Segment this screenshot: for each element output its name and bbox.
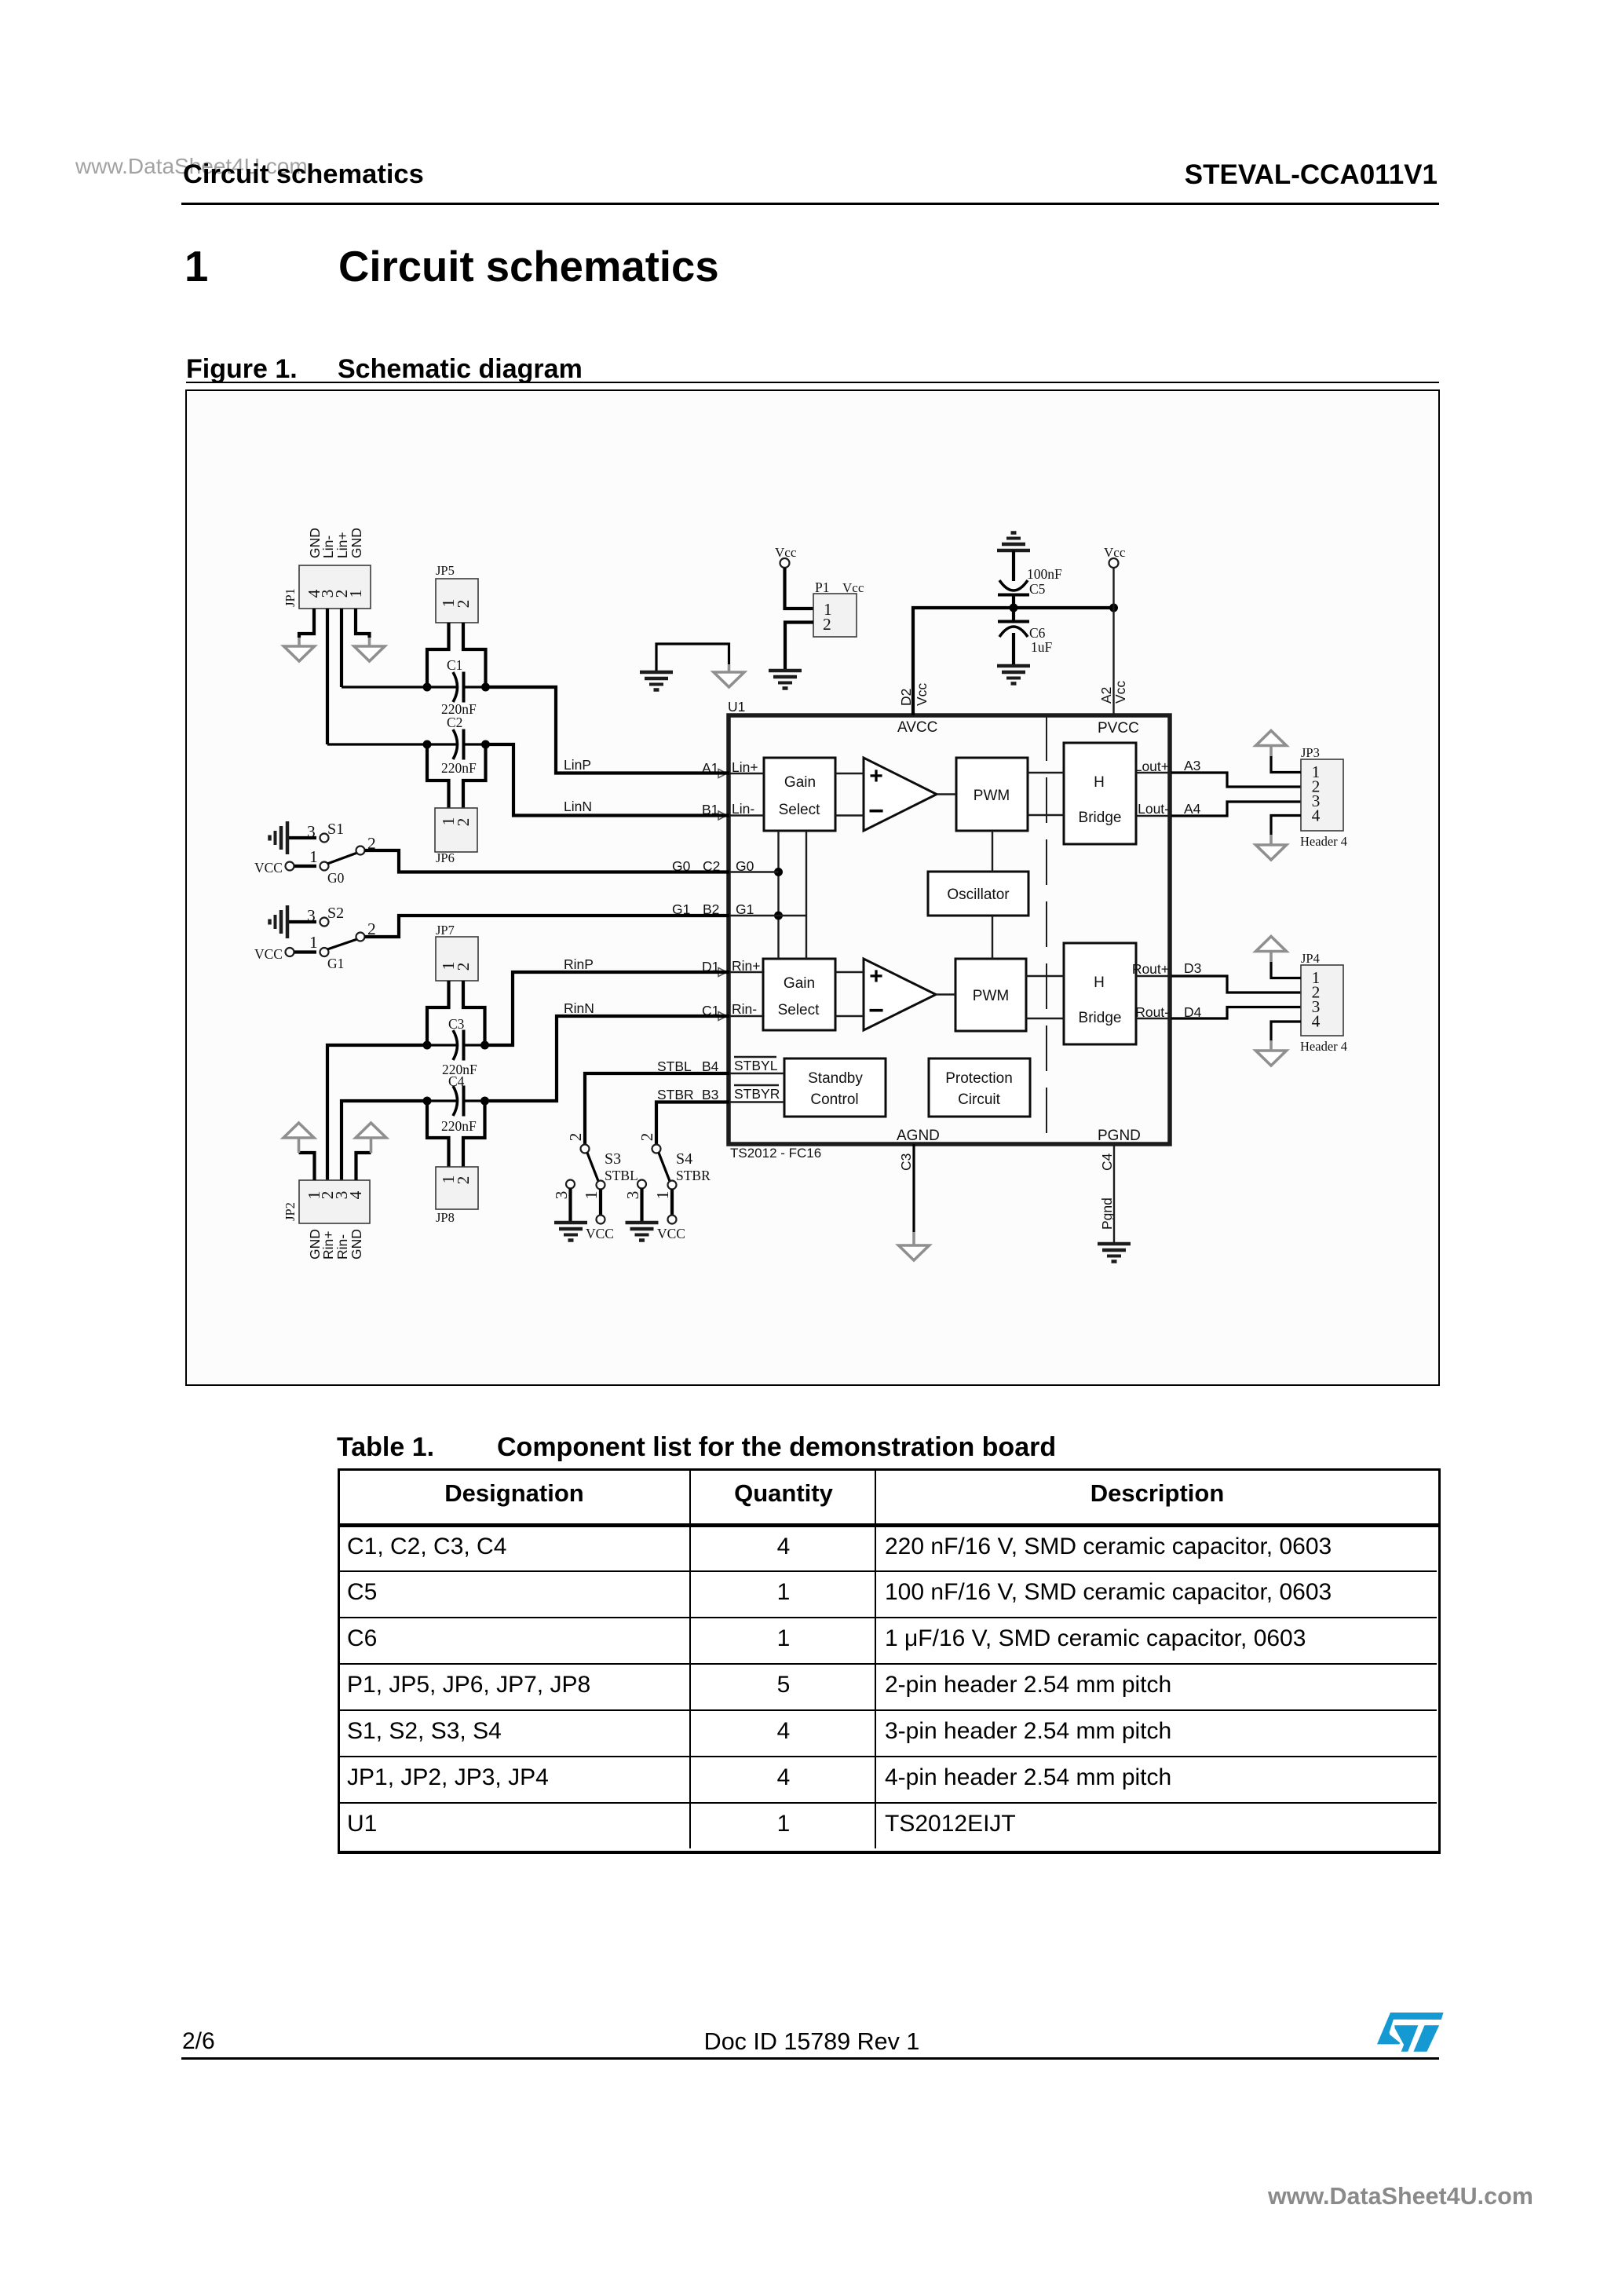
wire op-amp out to PWM (right) xyxy=(936,993,955,995)
svg-text:1uF: 1uF xyxy=(1031,639,1053,655)
wire H bridge to Lout- pin xyxy=(1136,815,1171,817)
gain select block (right channel) xyxy=(763,959,835,1030)
svg-text:Pgnd: Pgnd xyxy=(1099,1197,1115,1230)
ground above C5 (inverted earth) xyxy=(997,533,1030,551)
footer doc id xyxy=(704,2028,920,2056)
ground JP1 pin4 (gray stem) xyxy=(298,638,301,646)
S4 pin1 pad xyxy=(668,1181,677,1190)
ground tie (triangle) xyxy=(714,672,744,687)
svg-text:STBL: STBL xyxy=(605,1168,638,1183)
svg-text:Gain: Gain xyxy=(784,975,815,992)
svg-text:1: 1 xyxy=(346,590,365,598)
svg-text:Lin+: Lin+ xyxy=(732,759,758,775)
S2 blade xyxy=(327,939,357,949)
svg-text:Rin-: Rin- xyxy=(334,1234,350,1260)
wire H bridge to Lout+ pin xyxy=(1136,772,1171,773)
svg-text:C2: C2 xyxy=(447,715,462,730)
svg-text:AVCC: AVCC xyxy=(897,719,937,736)
svg-text:JP6: JP6 xyxy=(436,850,455,865)
S1 blade xyxy=(327,853,357,864)
svg-text:Rin+: Rin+ xyxy=(320,1231,336,1260)
svg-text:1: 1 xyxy=(582,1191,601,1200)
svg-text:100nF: 100nF xyxy=(1027,566,1062,582)
wire D1 pin to gain select xyxy=(729,971,763,973)
header JP6 xyxy=(435,808,477,852)
ST logo xyxy=(1377,2013,1444,2056)
wire JP1 pin3 Lin- vertical xyxy=(326,609,329,744)
connector JP4 xyxy=(1301,965,1343,1036)
svg-text:1: 1 xyxy=(309,847,318,866)
node VCC at S2 xyxy=(286,948,294,956)
wire JP3 pin1 to arrow xyxy=(1271,756,1301,773)
ground JP1 pin1 (triangle) xyxy=(354,646,385,661)
oscillator block xyxy=(928,872,1028,916)
svg-text:JP8: JP8 xyxy=(436,1210,455,1225)
op-amp (left channel) xyxy=(864,758,937,831)
header P1 xyxy=(813,594,857,637)
arrow JP2 pin1 (gray stem) xyxy=(298,1139,301,1153)
svg-text:3: 3 xyxy=(307,906,316,925)
svg-text:Oscillator: Oscillator xyxy=(947,887,1010,903)
svg-text:C1: C1 xyxy=(447,657,462,673)
svg-text:Lout-: Lout- xyxy=(1138,801,1169,817)
arrow JP4 pin1 (triangle up) xyxy=(1256,937,1287,952)
svg-text:PWM: PWM xyxy=(974,788,1010,804)
ground at P1 (earth) xyxy=(769,671,802,689)
svg-text:TS2012 - FC16: TS2012 - FC16 xyxy=(730,1146,821,1161)
svg-text:S3: S3 xyxy=(605,1150,621,1168)
wire oscillator to PWM (right) xyxy=(992,916,993,959)
arrow JP4 pin1 (gray stem) xyxy=(1269,952,1273,962)
S2 pin2 pad xyxy=(356,933,365,941)
wire AGND pin xyxy=(912,1144,915,1232)
wire STBYR pin to standby control xyxy=(729,1101,784,1102)
switch S2 ground (rotated earth) xyxy=(270,905,288,938)
wire RinN xyxy=(485,1016,730,1101)
S3 blade xyxy=(587,1153,598,1181)
ground AGND (gray stem) xyxy=(912,1232,915,1245)
arrow JP2 pin1 (triangle up) xyxy=(283,1123,314,1138)
junction C4 left xyxy=(423,1097,432,1106)
svg-text:H: H xyxy=(1094,974,1105,991)
header rule xyxy=(181,203,1439,205)
svg-text:LinP: LinP xyxy=(564,757,591,773)
standby control block xyxy=(784,1058,886,1117)
PWM block (left channel) xyxy=(956,758,1028,831)
svg-text:PVCC: PVCC xyxy=(1098,720,1139,737)
S2 pin1 pad xyxy=(320,948,329,956)
ground AGND (triangle) xyxy=(899,1245,930,1260)
gain select block (left channel) xyxy=(764,758,835,831)
junction C2 left xyxy=(423,740,432,749)
wire STBR net xyxy=(656,1102,729,1145)
figure frame xyxy=(185,389,1440,1386)
svg-text:JP5: JP5 xyxy=(436,563,455,578)
svg-text:−: − xyxy=(868,996,884,1026)
running header left xyxy=(183,159,424,190)
bottom watermark xyxy=(1268,2183,1533,2210)
arrow JP4 pin4 (gray stem) xyxy=(1269,1040,1273,1051)
svg-text:2: 2 xyxy=(823,615,831,634)
svg-text:A4: A4 xyxy=(1184,801,1201,817)
capacitor C5 xyxy=(999,580,1028,590)
input arrow B1 xyxy=(718,811,727,820)
svg-text:S2: S2 xyxy=(327,905,344,922)
svg-text:Standby: Standby xyxy=(808,1070,863,1087)
svg-text:2: 2 xyxy=(454,600,473,609)
svg-text:RinN: RinN xyxy=(564,1000,594,1016)
wire G1 vertical between gain selects xyxy=(806,831,807,959)
table xyxy=(338,1468,1441,1854)
wire Lout+ / A3 xyxy=(1171,773,1301,787)
header JP7 xyxy=(436,937,478,981)
svg-text:Rin+: Rin+ xyxy=(732,958,760,974)
svg-text:2: 2 xyxy=(454,818,473,827)
wire gain select to op-amp + (left) xyxy=(835,773,864,774)
wire C2 bus left xyxy=(327,743,458,745)
svg-text:G0: G0 xyxy=(327,870,345,886)
svg-text:RinP: RinP xyxy=(564,956,594,972)
wire LinP xyxy=(486,687,730,773)
svg-text:G1: G1 xyxy=(736,901,754,917)
wire G0 net to U1 xyxy=(365,850,730,872)
wire G1 net to U1 xyxy=(365,916,730,937)
wire STBYL pin to standby control xyxy=(729,1073,784,1074)
wire C4 bus left + Rin- vertical to JP2 xyxy=(342,1101,427,1180)
svg-text:P1: P1 xyxy=(815,579,829,595)
wire G0 vertical to both gain selects xyxy=(777,831,779,959)
wire Vcc to A2 pin xyxy=(1112,568,1114,715)
svg-text:Vcc: Vcc xyxy=(914,683,930,706)
junction C4 right xyxy=(480,1097,489,1106)
arrow JP3 pin1 (triangle up) xyxy=(1256,731,1287,746)
svg-text:A3: A3 xyxy=(1184,758,1200,773)
wire C2 to JP6 pin2 xyxy=(463,744,486,808)
svg-text:S4: S4 xyxy=(676,1150,692,1168)
input arrow D1 xyxy=(718,968,727,977)
wire Vcc to P1 pin1 xyxy=(785,568,814,609)
arrow JP3 pin4 (gray stem) xyxy=(1269,835,1273,845)
svg-text:B3: B3 xyxy=(702,1087,718,1102)
svg-text:Lin-: Lin- xyxy=(732,801,754,817)
svg-text:1: 1 xyxy=(309,933,318,952)
wire JP7 pin1 bypass loop xyxy=(427,981,449,1042)
wire Rout+ / D3 xyxy=(1171,976,1301,993)
wire JP4 pin1 to arrow xyxy=(1271,962,1301,978)
caption underline xyxy=(186,382,1439,383)
svg-text:Vcc: Vcc xyxy=(1112,681,1128,704)
svg-text:2: 2 xyxy=(454,963,473,971)
svg-text:D4: D4 xyxy=(1184,1004,1202,1020)
switch S1 ground (rotated earth) xyxy=(270,821,288,854)
junction C3 right xyxy=(480,1041,489,1050)
wire S3 pin1 to VCC xyxy=(599,1190,602,1216)
svg-text:STBYR: STBYR xyxy=(734,1086,780,1102)
svg-text:Lin+: Lin+ xyxy=(334,532,350,558)
wire JP2 pin4 to arrow xyxy=(356,1153,371,1180)
svg-text:G0: G0 xyxy=(736,858,754,874)
header JP8 xyxy=(436,1167,478,1209)
junction G1 xyxy=(774,912,783,920)
svg-text:C5: C5 xyxy=(1029,581,1046,597)
svg-text:PGND: PGND xyxy=(1098,1128,1141,1144)
capacitor C1 xyxy=(453,672,464,703)
wire S2 pin3 stem xyxy=(289,920,316,923)
svg-text:Gain: Gain xyxy=(784,774,816,791)
S4 pin3 pad xyxy=(637,1180,646,1189)
wire P1 pin2 to ground xyxy=(785,623,813,670)
wire S4 pin1 to VCC xyxy=(670,1190,674,1216)
svg-text:4: 4 xyxy=(346,1190,365,1199)
dashed domain divider xyxy=(1046,715,1047,1144)
svg-text:Bridge: Bridge xyxy=(1079,810,1122,826)
svg-text:3: 3 xyxy=(307,822,316,841)
ground below C6 (earth) xyxy=(997,666,1030,684)
svg-text:+: + xyxy=(869,963,883,989)
svg-text:Vcc: Vcc xyxy=(842,580,864,595)
wire STBL net xyxy=(585,1073,729,1145)
wire C4 to JP8 pin2 xyxy=(463,1101,485,1167)
wire Rout- / D4 xyxy=(1171,1007,1301,1019)
wire JP1 pin4 to ground xyxy=(299,609,314,638)
svg-text:220nF: 220nF xyxy=(441,760,477,776)
S3 pin3 pad xyxy=(566,1180,575,1189)
svg-text:S1: S1 xyxy=(327,821,344,838)
wire gain select to op-amp + (right) xyxy=(835,971,864,973)
svg-text:2: 2 xyxy=(566,1133,585,1142)
wire JP7 pin2 bypass loop xyxy=(463,981,485,1042)
svg-text:Circuit: Circuit xyxy=(958,1091,1001,1108)
schematic figure xyxy=(185,389,1439,1385)
wire S1 pin3 stem xyxy=(289,836,316,839)
svg-text:Bridge: Bridge xyxy=(1079,1010,1122,1026)
svg-text:Lin-: Lin- xyxy=(320,536,336,558)
arrow JP3 pin4 (triangle down) xyxy=(1256,845,1287,860)
S1 pin1 pad xyxy=(320,862,329,871)
wire JP1 pin2 Lin+ vertical xyxy=(340,609,343,687)
svg-text:C4: C4 xyxy=(448,1073,465,1089)
svg-text:−: − xyxy=(868,796,884,826)
wire JP1 pin1 to ground xyxy=(356,609,370,638)
svg-text:Lout+: Lout+ xyxy=(1134,759,1169,774)
svg-text:H: H xyxy=(1094,774,1105,791)
svg-text:STBR: STBR xyxy=(676,1168,711,1183)
section number xyxy=(184,242,208,291)
arrow JP2 pin4 (gray stem) xyxy=(370,1139,373,1153)
svg-text:JP7: JP7 xyxy=(436,923,455,938)
svg-text:AGND: AGND xyxy=(897,1128,940,1144)
header JP5 xyxy=(436,579,478,623)
wire gain select to op-amp - (left) xyxy=(835,814,864,816)
wire JP3 pin4 to arrow xyxy=(1271,816,1301,835)
svg-text:A2: A2 xyxy=(1098,687,1114,704)
svg-text:VCC: VCC xyxy=(254,860,283,876)
wire JP2 pin1 to arrow xyxy=(299,1153,315,1180)
H bridge block (left channel) xyxy=(1064,743,1136,844)
input arrow C1 xyxy=(718,1012,727,1021)
svg-text:3: 3 xyxy=(552,1191,571,1200)
footer rule xyxy=(181,2057,1439,2060)
svg-text:JP2: JP2 xyxy=(283,1202,298,1221)
svg-text:+: + xyxy=(869,763,883,789)
svg-text:Rout+: Rout+ xyxy=(1132,961,1169,977)
ground at S3 (earth) xyxy=(554,1223,587,1241)
ground at S4 (earth) xyxy=(626,1223,659,1241)
svg-text:Rin-: Rin- xyxy=(732,1001,757,1017)
PWM block (right channel) xyxy=(955,959,1026,1031)
connector JP1 xyxy=(299,565,371,609)
ground JP1 pin4 (triangle) xyxy=(284,646,315,661)
footer page number xyxy=(182,2028,215,2055)
junction C1 left xyxy=(423,683,432,692)
capacitor C3 xyxy=(453,1030,464,1061)
wire Vcc bus to D2 xyxy=(913,608,1114,715)
wire gain select to op-amp - (right) xyxy=(835,1015,864,1017)
junction C1 right xyxy=(481,683,490,692)
S4 blade xyxy=(659,1153,670,1181)
wire C1 pin to gain select xyxy=(729,1015,763,1017)
section title xyxy=(338,242,719,291)
wire LinN xyxy=(486,744,730,816)
wire H bridge to Rout- pin xyxy=(1136,1018,1171,1019)
svg-text:GND: GND xyxy=(349,1229,364,1260)
figure caption xyxy=(186,354,298,385)
wire S1 VCC to pin1 xyxy=(294,865,316,868)
op-amp (right channel) xyxy=(864,959,936,1030)
junction C5/C6 tap xyxy=(1010,604,1018,612)
wire PWM to H bridge upper (left) xyxy=(1028,772,1064,773)
svg-text:JP4: JP4 xyxy=(1301,951,1320,966)
wire PWM to H bridge upper (right) xyxy=(1026,975,1064,977)
svg-text:JP3: JP3 xyxy=(1301,745,1320,760)
svg-text:C6: C6 xyxy=(1029,625,1046,641)
S1 pin3 pad xyxy=(320,834,329,843)
svg-text:LinN: LinN xyxy=(564,799,592,814)
svg-text:G1: G1 xyxy=(327,956,344,971)
junction C3 left xyxy=(423,1041,432,1050)
svg-text:C3: C3 xyxy=(898,1153,914,1171)
wire S3 pin3 to ground xyxy=(568,1189,572,1222)
svg-text:C4: C4 xyxy=(1099,1153,1115,1171)
svg-text:Select: Select xyxy=(778,1002,820,1018)
wire S2 VCC to pin1 xyxy=(294,950,316,953)
svg-text:PWM: PWM xyxy=(973,988,1009,1004)
wire C1 bus left xyxy=(342,686,458,688)
connector JP2 xyxy=(299,1180,370,1223)
wire RinP xyxy=(485,972,730,1045)
svg-text:2: 2 xyxy=(637,1133,656,1142)
S2 pin3 pad xyxy=(320,918,329,927)
svg-text:VCC: VCC xyxy=(254,946,283,962)
svg-text:VCC: VCC xyxy=(657,1226,685,1241)
H bridge block (right channel) xyxy=(1064,943,1136,1044)
ground tie earth symbol xyxy=(640,672,673,690)
arrow JP4 pin4 (triangle down) xyxy=(1256,1051,1287,1066)
svg-text:VCC: VCC xyxy=(586,1226,614,1241)
junction G0 xyxy=(774,868,783,876)
wire Lout- / A4 xyxy=(1171,802,1301,816)
S1 pin2 pad xyxy=(356,846,365,855)
wire C2 to JP6 pin1 xyxy=(427,744,449,808)
svg-text:2: 2 xyxy=(454,1176,473,1185)
input arrow A1 xyxy=(718,770,727,778)
wire B1 pin to gain select xyxy=(729,814,764,816)
op-amp U1 outline (TS2012) xyxy=(729,715,1170,1144)
connector JP3 xyxy=(1301,759,1343,831)
running header right xyxy=(1185,159,1438,191)
wire C5 top stem xyxy=(1012,550,1015,581)
wire JP5 pin2 bypass loop xyxy=(463,623,486,684)
S3 pin1 pad xyxy=(597,1181,605,1190)
arrow JP2 pin4 (triangle up) xyxy=(356,1123,386,1138)
wire G0 pin entry xyxy=(729,871,779,872)
capacitor C4 xyxy=(453,1086,464,1117)
svg-text:STBYL: STBYL xyxy=(734,1058,778,1073)
wire PGND pin xyxy=(1113,1144,1115,1242)
switch S4 pin2 pad xyxy=(652,1145,661,1153)
node VCC at S3 xyxy=(597,1216,605,1224)
junction Vcc column xyxy=(1109,604,1118,612)
wire ground tie xyxy=(656,644,729,671)
svg-text:Header 4: Header 4 xyxy=(1300,1039,1347,1054)
svg-text:1: 1 xyxy=(653,1191,672,1200)
wire A1 pin to gain select xyxy=(729,773,764,774)
node VCC at S4 xyxy=(668,1216,677,1224)
svg-text:Header 4: Header 4 xyxy=(1300,834,1347,849)
svg-text:GND: GND xyxy=(349,528,364,558)
wire PWM to oscillator (left) xyxy=(992,831,993,872)
ground tie (gray stem) xyxy=(728,664,731,672)
svg-text:C3: C3 xyxy=(448,1016,465,1032)
wire C4 to JP8 pin1 xyxy=(427,1101,449,1167)
arrow JP3 pin1 (gray stem) xyxy=(1269,746,1273,756)
svg-text:Protection: Protection xyxy=(945,1070,1013,1087)
svg-text:U1: U1 xyxy=(728,699,745,715)
top watermark xyxy=(75,154,308,179)
node VCC at S1 xyxy=(286,862,294,871)
svg-text:STBR: STBR xyxy=(657,1087,694,1102)
svg-text:Rout-: Rout- xyxy=(1135,1004,1169,1020)
svg-text:JP1: JP1 xyxy=(283,588,298,607)
wire S4 pin3 to ground xyxy=(640,1189,643,1222)
ground PGND (earth) xyxy=(1098,1244,1131,1262)
table title xyxy=(337,1432,434,1463)
switch S3 pin2 pad xyxy=(581,1145,590,1153)
svg-text:4: 4 xyxy=(1312,806,1321,825)
wire JP4 pin4 to arrow xyxy=(1271,1022,1301,1040)
protection circuit block xyxy=(929,1058,1030,1117)
wire PWM to H bridge lower (left) xyxy=(1028,814,1064,816)
svg-text:Select: Select xyxy=(779,802,821,818)
ground JP1 pin1 (gray stem) xyxy=(368,638,371,646)
wire G1 pin entry xyxy=(729,915,806,916)
svg-text:D3: D3 xyxy=(1184,960,1201,976)
junction C2 right xyxy=(481,740,490,749)
wire JP5 pin1 bypass loop xyxy=(427,623,449,684)
svg-text:220nF: 220nF xyxy=(441,1118,477,1134)
wire op-amp out to PWM (left) xyxy=(937,793,956,795)
svg-text:3: 3 xyxy=(623,1191,642,1200)
wire PWM to H bridge lower (right) xyxy=(1026,1018,1064,1019)
wire H bridge to Rout+ pin xyxy=(1136,975,1171,977)
svg-text:Control: Control xyxy=(810,1091,858,1108)
capacitor C6 xyxy=(998,620,1029,623)
svg-text:4: 4 xyxy=(1312,1012,1321,1031)
capacitor C2 xyxy=(453,729,464,760)
wire C3 bus left + Rin+ vertical to JP2 xyxy=(327,1045,427,1180)
